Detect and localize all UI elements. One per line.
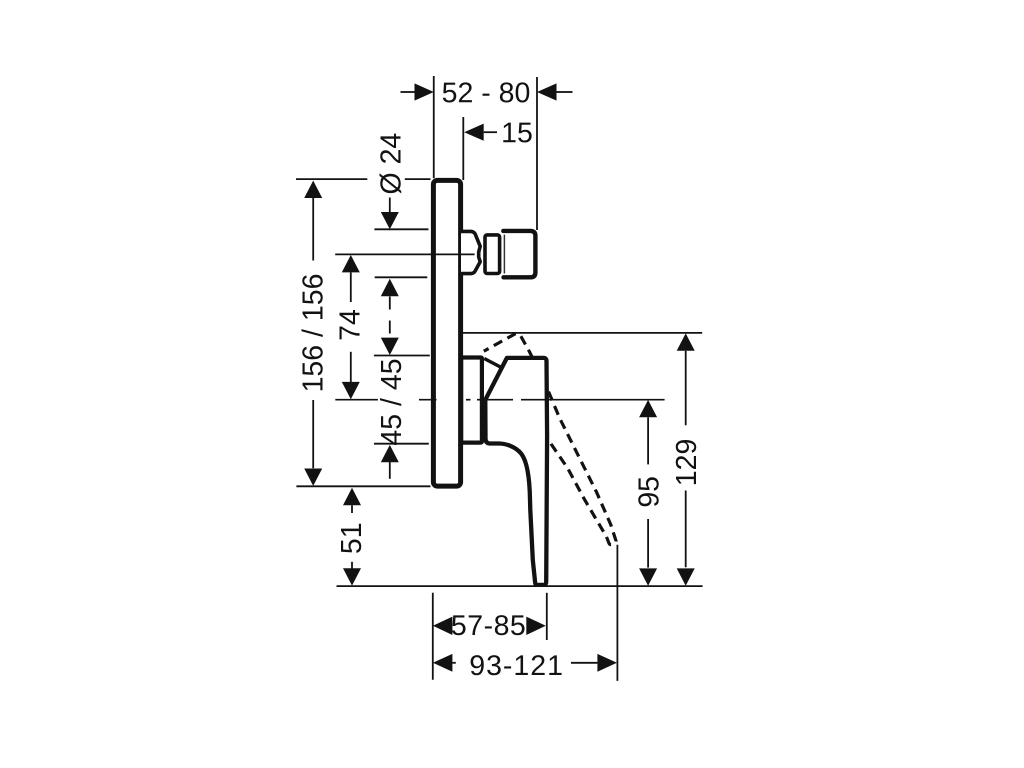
svg-text:45 / 45: 45 / 45	[376, 358, 408, 445]
svg-text:93-121: 93-121	[469, 650, 564, 682]
svg-text:57-85: 57-85	[451, 610, 526, 642]
svg-text:156 / 156: 156 / 156	[297, 274, 329, 393]
svg-text:51: 51	[336, 522, 368, 554]
svg-text:74: 74	[335, 309, 367, 341]
svg-text:129: 129	[671, 439, 703, 487]
svg-text:52 - 80: 52 - 80	[442, 77, 531, 109]
svg-text:15: 15	[501, 117, 533, 149]
svg-text:Ø 24: Ø 24	[376, 133, 408, 195]
svg-text:95: 95	[634, 476, 666, 508]
